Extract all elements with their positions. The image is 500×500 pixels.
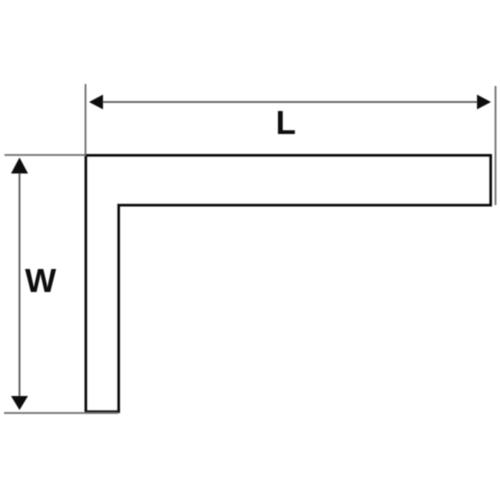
dimension line L shaft <box>99 101 480 103</box>
extension line top horizontal for W <box>5 154 87 156</box>
arrowhead W up <box>11 158 28 174</box>
extension line left (top of W / left of L) <box>85 84 87 154</box>
arrowhead W down <box>11 396 28 410</box>
L-shaped bar outline <box>86 156 491 412</box>
extension line right of L <box>495 86 497 205</box>
extension line bottom horizontal for W <box>4 412 119 414</box>
svg-text:L: L <box>276 104 296 141</box>
dimension line W shaft <box>19 168 21 400</box>
svg-text:W: W <box>25 262 57 299</box>
arrowhead L right <box>477 95 491 110</box>
arrowhead L left <box>89 95 103 110</box>
